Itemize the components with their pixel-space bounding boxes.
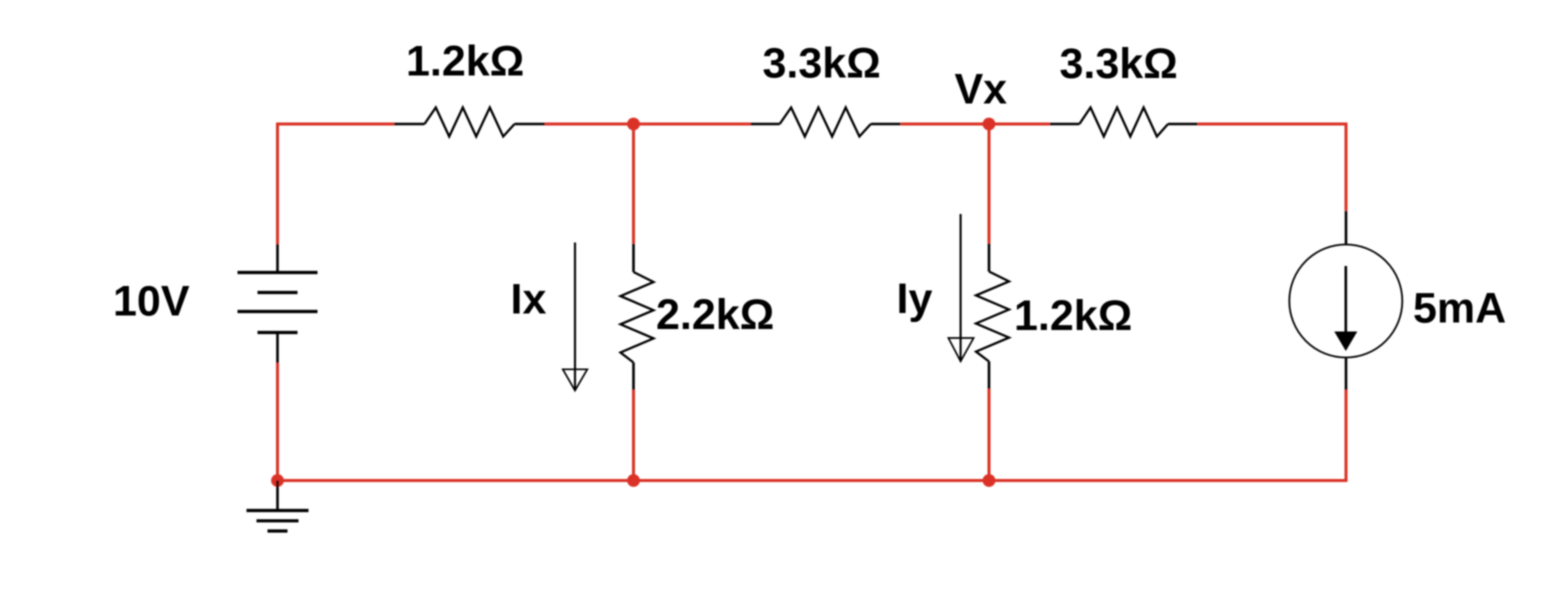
svg-text:3.3kΩ: 3.3kΩ [763,40,881,88]
svg-text:10V: 10V [113,278,190,326]
svg-text:Vx: Vx [955,66,1008,114]
svg-text:1.2kΩ: 1.2kΩ [1014,292,1132,340]
svg-text:1.2kΩ: 1.2kΩ [406,38,524,86]
svg-text:5mA: 5mA [1413,285,1506,333]
svg-text:2.2kΩ: 2.2kΩ [656,291,774,339]
svg-text:Ix: Ix [511,276,547,324]
svg-text:3.3kΩ: 3.3kΩ [1060,40,1178,88]
svg-text:Iy: Iy [897,275,933,323]
